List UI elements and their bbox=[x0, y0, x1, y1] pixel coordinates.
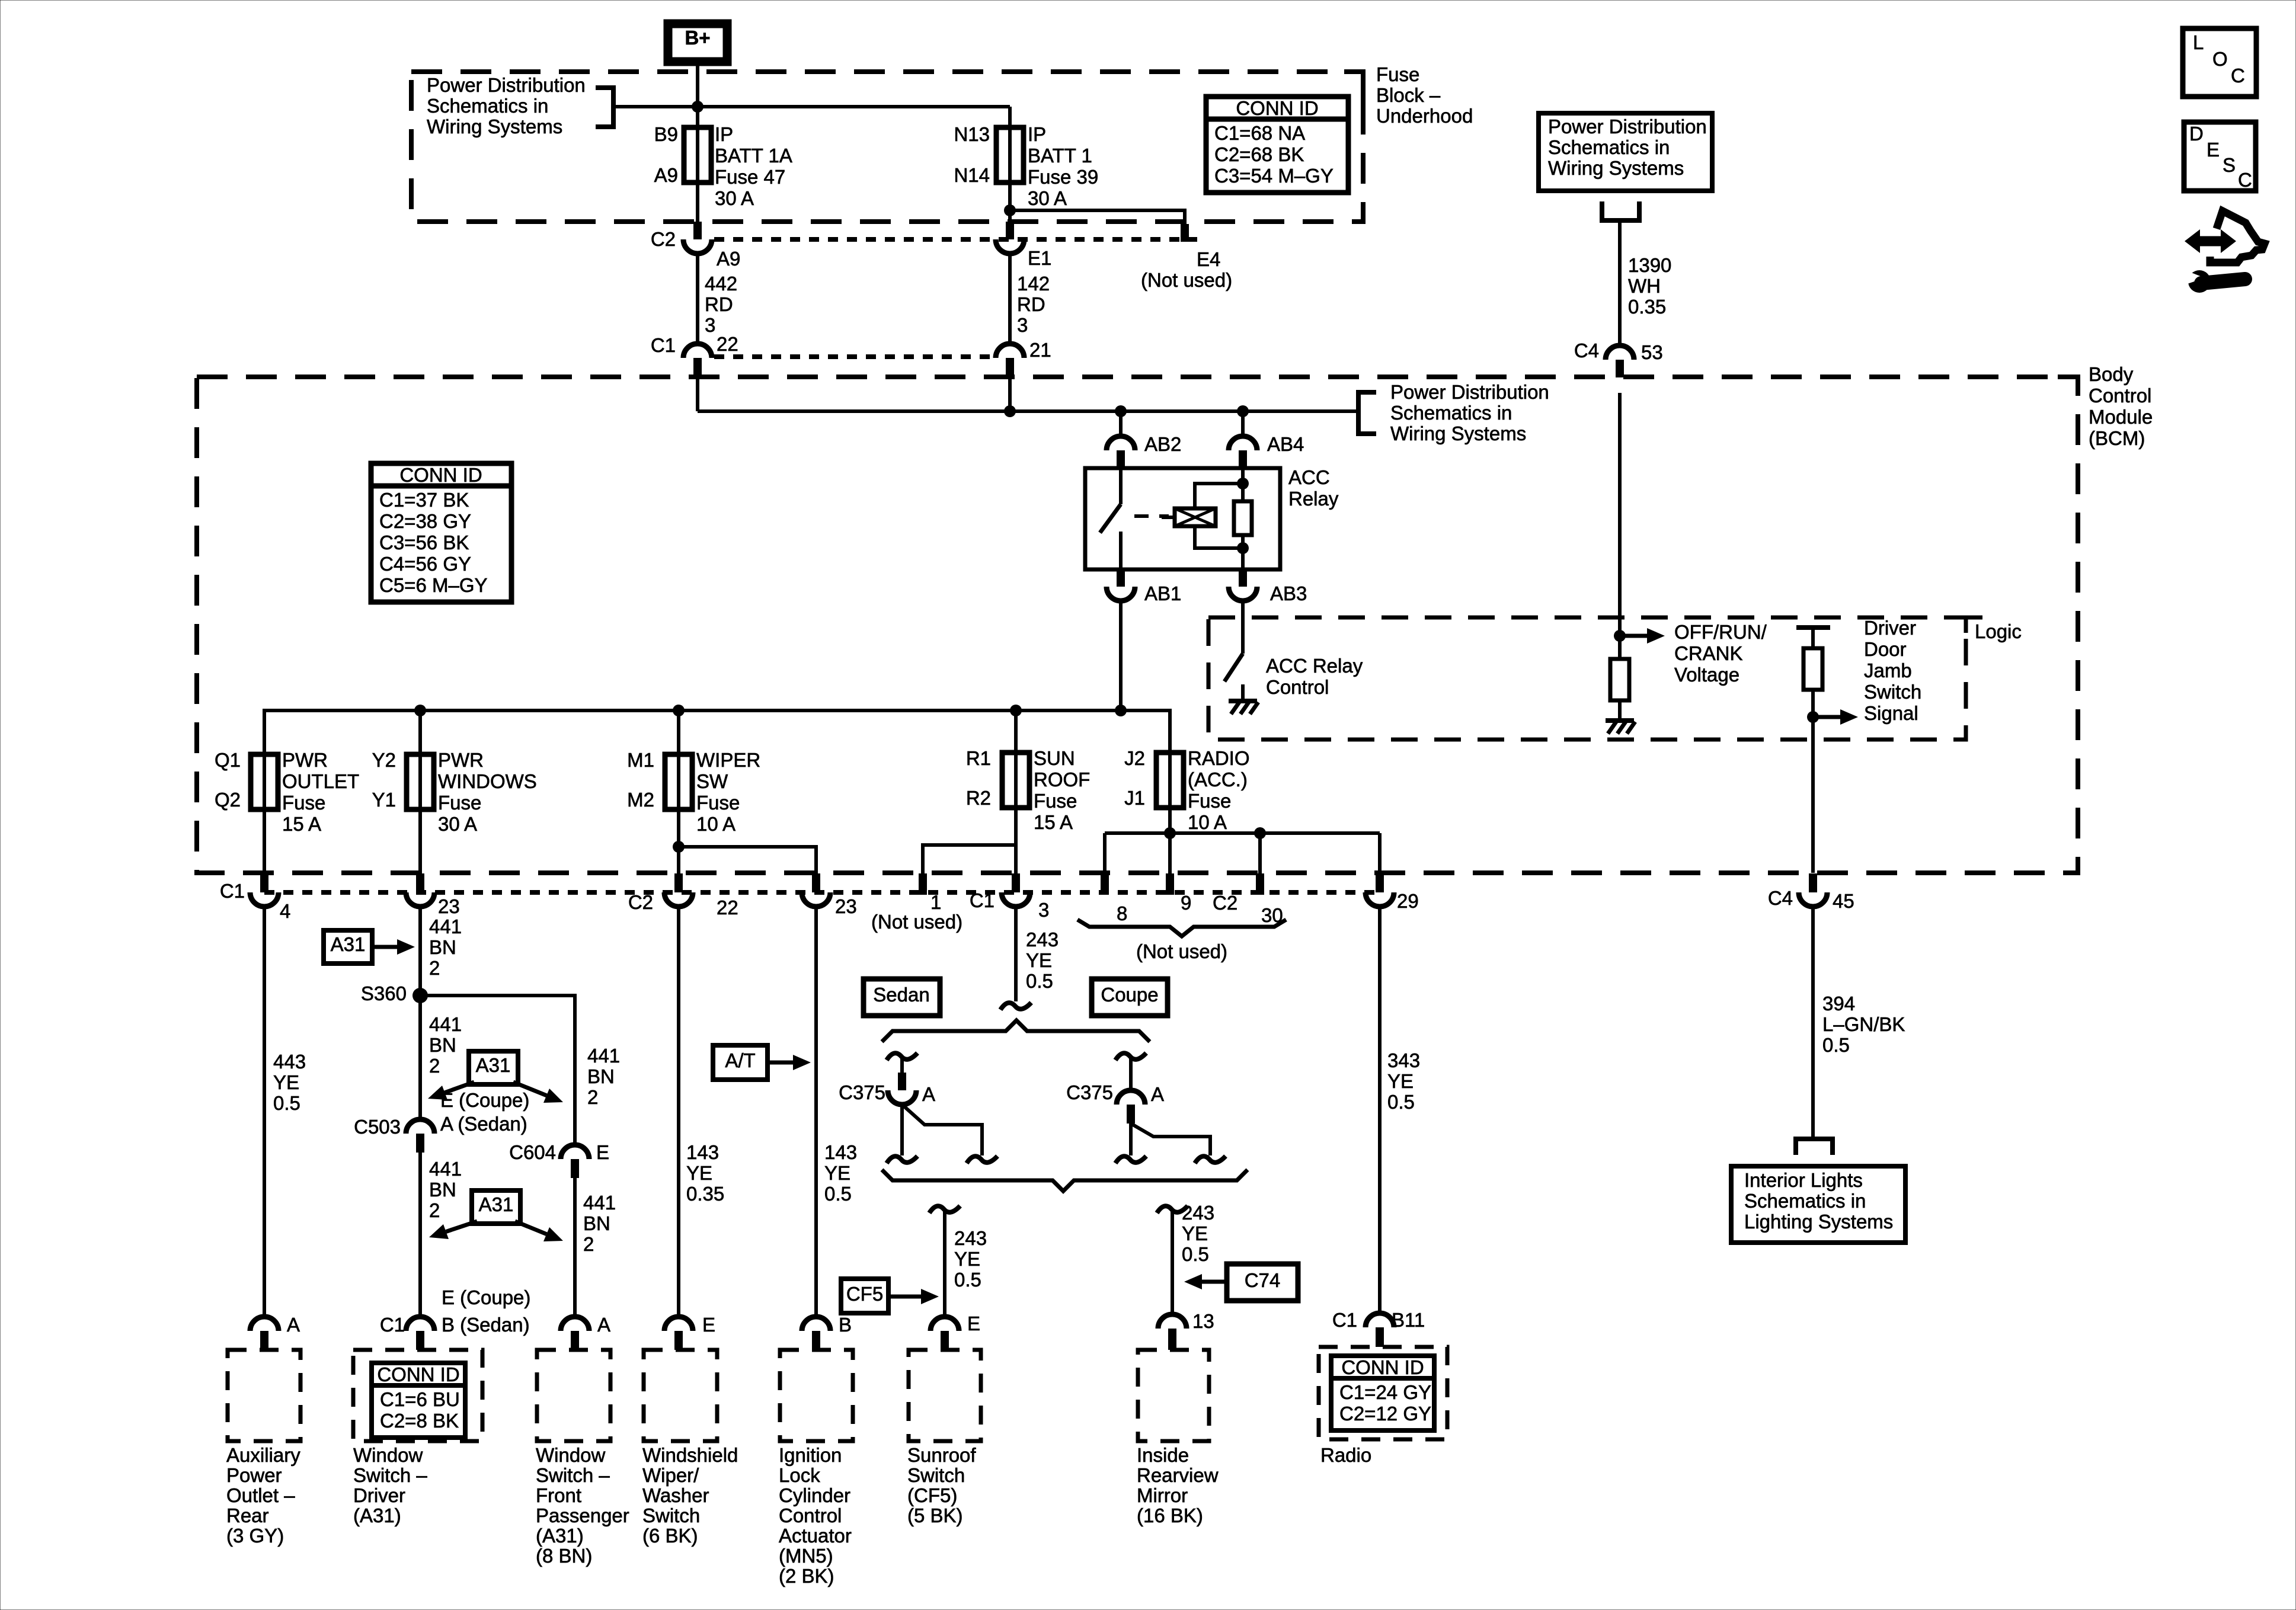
svg-text:C1: C1 bbox=[651, 334, 676, 356]
relay switch blade bbox=[1100, 504, 1121, 533]
wire 243 YE 0.5: pin 3 down bbox=[1014, 907, 1018, 1001]
icon: door with double arrow bbox=[2194, 236, 2227, 247]
connector AB3 bbox=[1239, 569, 1247, 587]
connector E1 bbox=[1006, 222, 1014, 239]
arrow: A31 to passenger wire bbox=[513, 1082, 546, 1096]
wire: bracket to B+ feed bbox=[613, 105, 698, 108]
svg-text:C375: C375 bbox=[839, 1081, 885, 1103]
svg-text:C2: C2 bbox=[628, 891, 653, 913]
wire: drop to pin 29 bbox=[1378, 833, 1382, 877]
wire: bus drop to R fuse bbox=[1014, 710, 1018, 753]
wire: S360 down to C503 bbox=[418, 996, 422, 1119]
relay coil (box with X) bbox=[1175, 508, 1216, 526]
option box: Coupe bbox=[1092, 979, 1168, 1016]
conn id table window switch driver bbox=[372, 1363, 465, 1438]
wire: C604 to window switch front passenger bbox=[573, 1178, 577, 1317]
node: off run crank tap bbox=[1614, 630, 1626, 642]
reference box A31 (middle) bbox=[469, 1051, 518, 1084]
wire: feed across to fuse 39 bbox=[698, 105, 1010, 108]
connector AB4 bbox=[1229, 436, 1257, 450]
conn id table radio bbox=[1331, 1356, 1434, 1430]
brace: split to sedan and coupe bbox=[882, 1020, 1150, 1042]
arrow: A31 to passenger wire (lower) bbox=[515, 1221, 546, 1234]
sedan switch: angled leg bbox=[902, 1105, 982, 1156]
wire 143 YE 0.5: ignition lock bbox=[814, 907, 818, 1317]
wire: BCM top bus to off-page bracket bbox=[698, 409, 1357, 413]
logic dashed box bbox=[1208, 617, 1966, 740]
svg-text:C2=8 BK: C2=8 BK bbox=[380, 1410, 459, 1432]
component box: ignition lock cylinder control actuator bbox=[780, 1350, 853, 1441]
svg-text:C1=68 NA: C1=68 NA bbox=[1214, 122, 1305, 144]
arrow: A31 to wire bbox=[372, 945, 399, 949]
connector pin 1 (not used) stub bbox=[919, 873, 927, 895]
svg-text:D: D bbox=[2189, 123, 2204, 145]
svg-text:(Not used): (Not used) bbox=[1141, 269, 1232, 291]
component box: inside rearview mirror bbox=[1138, 1350, 1209, 1441]
svg-text:Sedan: Sedan bbox=[873, 984, 929, 1006]
svg-text:C2=12 GY: C2=12 GY bbox=[1339, 1403, 1431, 1425]
icon: wrench bbox=[2188, 270, 2211, 293]
svg-text:B11: B11 bbox=[1392, 1309, 1425, 1331]
connector pin 23 (window) bbox=[416, 873, 424, 892]
svg-text:E: E bbox=[967, 1313, 980, 1334]
connector pin 21 bbox=[996, 344, 1024, 358]
fuse block - underhood dashed boundary bbox=[411, 72, 1363, 222]
svg-text:E: E bbox=[2207, 139, 2220, 161]
svg-text:A: A bbox=[1151, 1083, 1164, 1105]
wire: bus drop to Y fuse bbox=[418, 710, 422, 754]
B+ battery feed box bbox=[668, 24, 727, 62]
connector line (dotted) fuse block outputs bbox=[714, 237, 1197, 242]
ground: ACC relay control bbox=[1229, 699, 1257, 703]
svg-text:4: 4 bbox=[280, 900, 290, 922]
svg-text:J1: J1 bbox=[1124, 787, 1145, 809]
ACC relay control switch blade bbox=[1224, 654, 1243, 681]
LOC reference box bbox=[2183, 28, 2256, 97]
connector C1 (window switch driver) bbox=[406, 1317, 434, 1331]
svg-text:R2: R2 bbox=[966, 787, 991, 809]
brace: merge sedan/coupe outputs bbox=[882, 1170, 1248, 1191]
wire 143 YE 0.35: wiper switch bbox=[677, 907, 680, 1317]
arrow: A31 to driver wire bbox=[445, 1082, 474, 1093]
connector AB1 bbox=[1117, 569, 1125, 587]
svg-text:3: 3 bbox=[1038, 899, 1049, 921]
bracket for power distribution note bbox=[596, 88, 613, 127]
svg-text:B: B bbox=[839, 1314, 852, 1336]
wire: C4-53 OFF/RUN/CRANK voltage into logic bbox=[1618, 393, 1622, 659]
curl: coupe leg 2 end bbox=[1195, 1156, 1226, 1163]
svg-text:CONN ID: CONN ID bbox=[1236, 97, 1318, 119]
curl: coupe leg 1 end bbox=[1115, 1156, 1146, 1163]
connector C2 pin A9 bbox=[693, 222, 702, 239]
wire: bus drop to M fuse bbox=[677, 710, 680, 754]
connector C375 A (sedan) bbox=[898, 1073, 906, 1090]
svg-text:E (Coupe): E (Coupe) bbox=[440, 1089, 529, 1111]
fuse: SUN ROOF 15 A bbox=[1014, 753, 1018, 808]
svg-text:Q2: Q2 bbox=[215, 789, 241, 811]
svg-text:C: C bbox=[2231, 65, 2245, 87]
svg-text:E (Coupe): E (Coupe) bbox=[442, 1286, 530, 1308]
bracket for logic label bbox=[1966, 617, 1982, 633]
wire: resistor down through logic box bbox=[1811, 690, 1815, 873]
wire: drop to pin 8 bbox=[1103, 833, 1107, 877]
wire 142 RD 3: E1 to BCM bbox=[1008, 254, 1012, 344]
svg-text:A (Sedan): A (Sedan) bbox=[440, 1113, 527, 1135]
wire: AB3 down to ACC relay control switch bbox=[1241, 601, 1245, 654]
body control module dashed boundary bbox=[197, 377, 2078, 873]
curl: sedan branch start bbox=[887, 1053, 917, 1060]
node: wiper branch junction bbox=[673, 841, 685, 853]
wire: drop to pin 9 bbox=[1168, 833, 1172, 877]
wire: fuse 47 to connector C2 bbox=[696, 183, 699, 223]
curl: sunroof wire start bbox=[929, 1206, 960, 1213]
svg-text:L: L bbox=[2193, 31, 2204, 53]
option box: Sedan bbox=[864, 979, 940, 1016]
node: coil bottom junction bbox=[1237, 542, 1249, 554]
wire: AB1 down to internal bus bbox=[1119, 601, 1123, 710]
svg-text:C503: C503 bbox=[354, 1116, 401, 1138]
wire 441 BN 2: pin 23 to S360 bbox=[418, 907, 422, 996]
svg-text:C5=6 M–GY: C5=6 M–GY bbox=[379, 574, 488, 596]
svg-text:C1=37 BK: C1=37 BK bbox=[379, 489, 469, 511]
node: E4 branch junction bbox=[1004, 204, 1016, 216]
fuse: WIPER SW 10 A bbox=[677, 754, 680, 809]
coupe switch: straight leg bbox=[1129, 1124, 1133, 1156]
connector C2 pin 22 (wiper) bbox=[674, 873, 683, 892]
wire: BCM internal fuse bus bbox=[264, 710, 1170, 754]
brace: pins 8-30 not used bbox=[1077, 920, 1286, 936]
wire: coupe branch to C375 bbox=[1129, 1056, 1133, 1090]
svg-text:C375: C375 bbox=[1066, 1081, 1113, 1103]
wire: AB4 into relay bbox=[1241, 468, 1245, 501]
svg-text:J2: J2 bbox=[1124, 747, 1145, 769]
curl: sedan leg 2 end bbox=[967, 1156, 997, 1163]
svg-text:CONN ID: CONN ID bbox=[377, 1363, 459, 1385]
arrow: OFF/RUN/CRANK voltage bbox=[1620, 634, 1649, 638]
wire: pin 22 into BCM bus bbox=[696, 376, 699, 411]
svg-text:S360: S360 bbox=[361, 982, 407, 1004]
svg-text:1: 1 bbox=[930, 891, 941, 913]
wire: R fuse to connector C1-3 bbox=[1014, 809, 1018, 877]
svg-text:C1=24 GY: C1=24 GY bbox=[1339, 1381, 1431, 1403]
svg-text:R1: R1 bbox=[966, 747, 991, 769]
fuse: PWR OUTLET 15 A bbox=[263, 754, 266, 809]
wire 1390 WH 0.35 bbox=[1618, 220, 1622, 345]
corner mark at BCM top right bbox=[2058, 375, 2078, 379]
arrow: A/T to ignition wire bbox=[768, 1061, 795, 1065]
node: junction pin 30 bbox=[1254, 827, 1266, 839]
bracket above interior lights box bbox=[1796, 1139, 1833, 1155]
svg-text:A: A bbox=[287, 1314, 300, 1336]
curl: coupe branch start bbox=[1115, 1053, 1146, 1060]
fuse 39: IP BATT 1 30 A bbox=[1008, 127, 1012, 183]
svg-text:E: E bbox=[596, 1141, 609, 1163]
svg-text:Q1: Q1 bbox=[215, 749, 241, 771]
arrow: CF5 to sunroof wire bbox=[888, 1295, 923, 1299]
svg-text:C2: C2 bbox=[651, 228, 676, 250]
coupe switch: angled leg bbox=[1131, 1124, 1210, 1156]
wire: branch to pin 1 (not used) bbox=[923, 845, 1016, 877]
box: power distribution schematics in wiring systems bbox=[1539, 113, 1712, 191]
svg-text:45: 45 bbox=[1833, 890, 1854, 912]
connector C604 bbox=[561, 1145, 589, 1159]
connector C1 pin B11 (radio) bbox=[1366, 1313, 1394, 1327]
connector C1 pin 4 bbox=[260, 873, 268, 892]
connector C503 bbox=[406, 1119, 434, 1134]
wire: Y fuse to connector 23 bbox=[418, 809, 422, 877]
svg-text:N14: N14 bbox=[954, 164, 990, 186]
arrow: C74 to mirror wire bbox=[1200, 1280, 1227, 1284]
curl: rearview mirror wire start bbox=[1157, 1206, 1188, 1213]
svg-text:Y1: Y1 bbox=[372, 789, 396, 811]
svg-text:CF5: CF5 bbox=[846, 1283, 883, 1305]
svg-text:S: S bbox=[2223, 154, 2236, 176]
wire: fuse 39 to E1 and E4 branch bbox=[1008, 183, 1012, 223]
svg-text:A31: A31 bbox=[476, 1054, 511, 1076]
corner mark at fuse block top right bbox=[1344, 69, 1363, 74]
svg-text:M1: M1 bbox=[627, 749, 654, 771]
wire: drop to pin 30 bbox=[1258, 833, 1262, 877]
wire: M fuse to connector C2-22 bbox=[677, 809, 680, 877]
resistor: off run crank pull-up bbox=[1610, 659, 1629, 700]
fuse: RADIO ACC 10 A bbox=[1168, 753, 1172, 808]
wire: J fuse to pin row bbox=[1168, 809, 1172, 833]
box: interior lights schematics in lighting systems bbox=[1731, 1166, 1905, 1243]
connector pin 9 stub (not used) bbox=[1166, 873, 1174, 895]
component box: window switch front passenger bbox=[537, 1350, 610, 1441]
wire: sedan branch to C375 bbox=[900, 1056, 904, 1076]
node: coil top junction bbox=[1237, 478, 1249, 489]
fuse 47: IP BATT 1A 30 A bbox=[696, 127, 699, 183]
svg-text:CONN ID: CONN ID bbox=[399, 464, 482, 486]
svg-text:C: C bbox=[2238, 169, 2252, 191]
reference box A31 (top) bbox=[324, 930, 372, 964]
wire 243 YE 0.5 to sunroof switch bbox=[943, 1209, 946, 1317]
relay coil suppression resistor bbox=[1234, 501, 1252, 535]
wire 394 L-GN/BK 0.5: to interior lights bbox=[1811, 907, 1815, 1138]
svg-text:A9: A9 bbox=[717, 248, 740, 270]
svg-text:B (Sedan): B (Sedan) bbox=[442, 1314, 530, 1336]
connector C1 pin 22 bbox=[683, 344, 712, 358]
wire: bus down to AB4 bbox=[1241, 411, 1245, 438]
svg-text:13: 13 bbox=[1192, 1310, 1214, 1332]
wire: resistor bottom to box bottom bbox=[1241, 535, 1245, 569]
svg-text:C3=56 BK: C3=56 BK bbox=[379, 532, 469, 553]
connector pin 23 (ignition) bbox=[812, 873, 820, 892]
svg-text:B9: B9 bbox=[654, 123, 678, 145]
svg-text:A: A bbox=[597, 1314, 610, 1336]
svg-text:E1: E1 bbox=[1028, 247, 1051, 269]
svg-text:(Not used): (Not used) bbox=[871, 911, 962, 933]
relay actuation dashed link bbox=[1134, 514, 1169, 518]
wire: coil top to AB4 branch bbox=[1195, 484, 1243, 508]
svg-text:22: 22 bbox=[717, 897, 738, 918]
connector E (wiper) bbox=[664, 1317, 693, 1331]
svg-text:A9: A9 bbox=[654, 164, 678, 186]
svg-text:9: 9 bbox=[1181, 892, 1191, 914]
connector A (front passenger) bbox=[561, 1317, 589, 1331]
svg-text:C1: C1 bbox=[380, 1314, 405, 1336]
svg-text:E: E bbox=[702, 1314, 715, 1336]
connector C4 pin 45 bbox=[1809, 873, 1817, 892]
reference box C74 bbox=[1227, 1264, 1298, 1301]
svg-text:C74: C74 bbox=[1245, 1269, 1281, 1291]
connector line (dotted) BCM top bbox=[714, 354, 996, 359]
conn id table for BCM bbox=[371, 463, 511, 602]
svg-text:C604: C604 bbox=[509, 1141, 556, 1163]
relay switch fixed contact from AB2 bbox=[1119, 468, 1123, 504]
svg-text:AB3: AB3 bbox=[1270, 582, 1307, 604]
connector pin 30 stub (not used) bbox=[1256, 873, 1264, 895]
node: B+ feed junction bbox=[692, 101, 703, 113]
node: bus junction at pin 21 bbox=[1004, 405, 1016, 417]
wire: resistor to ground bbox=[1618, 700, 1622, 719]
svg-text:B+: B+ bbox=[685, 27, 710, 49]
wire: C503 to window switch driver bbox=[418, 1153, 422, 1317]
wire: bus down to AB2 bbox=[1119, 411, 1123, 438]
curl: sedan leg 1 end bbox=[887, 1156, 917, 1163]
svg-text:29: 29 bbox=[1397, 890, 1419, 912]
wire 243 YE 0.5 to inside rearview mirror bbox=[1171, 1209, 1174, 1314]
ACC relay control lower contact bbox=[1241, 684, 1245, 700]
wire: T bar to resistor bbox=[1811, 628, 1815, 648]
node: junction pin 9 bbox=[1164, 827, 1176, 839]
node: jamb switch signal tap bbox=[1807, 711, 1819, 723]
connector line (dotted) BCM bottom bbox=[264, 890, 1382, 895]
wire: radio fuse distribution bar bbox=[1105, 831, 1380, 835]
connector C1 pin 3 (sunroof) bbox=[1012, 873, 1020, 892]
connector B (ignition) bbox=[802, 1317, 830, 1331]
connector pin 8 stub (not used) bbox=[1101, 873, 1109, 895]
connector pin 29 (radio) bbox=[1376, 873, 1384, 892]
svg-text:N13: N13 bbox=[954, 123, 990, 145]
node: bus junction AB2 bbox=[1115, 405, 1127, 417]
component box: auxiliary power outlet rear bbox=[228, 1350, 300, 1441]
ACC relay box bbox=[1085, 468, 1280, 569]
svg-text:AB4: AB4 bbox=[1267, 433, 1304, 455]
svg-text:23: 23 bbox=[438, 895, 460, 917]
resistor: driver door jamb bbox=[1803, 648, 1822, 690]
arrow: driver door jamb switch signal bbox=[1813, 715, 1843, 719]
wire: coil bottom to AB3 branch bbox=[1195, 526, 1243, 548]
svg-text:C4: C4 bbox=[1768, 887, 1793, 909]
connector AB2 bbox=[1107, 436, 1135, 450]
svg-text:C1=6 BU: C1=6 BU bbox=[380, 1388, 460, 1410]
wire: pin 21 into bus bbox=[1008, 376, 1012, 411]
connector A (aux outlet) bbox=[250, 1317, 279, 1331]
wire 343 YE 0.5: pin 29 to radio bbox=[1378, 907, 1382, 1313]
wire: S360 branch to front passenger bbox=[420, 996, 575, 1145]
svg-text:C3=54 M–GY: C3=54 M–GY bbox=[1214, 165, 1334, 187]
wire: Q fuse to connector C1-4 bbox=[263, 809, 266, 877]
svg-text:C1: C1 bbox=[1332, 1309, 1357, 1331]
wire: B+ down to fuse 47 bbox=[696, 62, 699, 127]
node: bus junction M fuse bbox=[673, 705, 685, 716]
svg-text:E4: E4 bbox=[1197, 248, 1220, 270]
component box: sunroof switch bbox=[909, 1350, 981, 1441]
node: bus junction Y fuse bbox=[414, 705, 426, 716]
node: bus junction AB4 bbox=[1237, 405, 1249, 417]
svg-text:C2: C2 bbox=[1213, 892, 1237, 914]
svg-text:C4: C4 bbox=[1574, 340, 1599, 361]
node: bus junction R fuse bbox=[1010, 705, 1022, 716]
svg-text:A31: A31 bbox=[479, 1193, 514, 1215]
curl: wire 243 end bbox=[1000, 1003, 1031, 1010]
splice S360 bbox=[412, 988, 428, 1003]
node: bus junction AB1 feed bbox=[1115, 705, 1127, 716]
svg-text:AB2: AB2 bbox=[1144, 433, 1181, 455]
svg-text:M2: M2 bbox=[627, 789, 654, 811]
DESC reference box bbox=[2184, 122, 2256, 191]
wire 443 YE 0.5: to aux power outlet bbox=[263, 907, 266, 1317]
svg-text:A/T: A/T bbox=[725, 1049, 755, 1071]
svg-text:Coupe: Coupe bbox=[1101, 984, 1158, 1006]
connector E (sunroof) bbox=[930, 1317, 959, 1331]
reference box A31 (bottom) bbox=[472, 1190, 520, 1224]
svg-text:C1: C1 bbox=[220, 880, 245, 902]
svg-text:Logic: Logic bbox=[1975, 620, 2022, 642]
svg-text:C2=38 GY: C2=38 GY bbox=[379, 510, 471, 532]
wire 442 RD 3: C2 to BCM bbox=[696, 254, 699, 344]
connector E4 (not used) stub bbox=[1181, 224, 1189, 242]
svg-text:CONN ID: CONN ID bbox=[1341, 1356, 1424, 1378]
arrow: A31 to driver wire (lower) bbox=[446, 1221, 477, 1232]
svg-text:C1: C1 bbox=[970, 889, 994, 911]
bracket: power distribution schematics (BCM) bbox=[1358, 392, 1376, 434]
ground: off run crank bbox=[1606, 718, 1634, 723]
sedan switch: straight leg bbox=[900, 1105, 904, 1156]
connector pin 13 (mirror) bbox=[1158, 1314, 1187, 1329]
svg-text:Radio: Radio bbox=[1320, 1444, 1371, 1466]
svg-text:53: 53 bbox=[1641, 341, 1663, 363]
component box: radio bbox=[1319, 1347, 1447, 1439]
bracket below power distribution box bbox=[1602, 201, 1639, 220]
svg-text:Y2: Y2 bbox=[372, 749, 396, 771]
wire: branch to connector 23 (ignition) bbox=[679, 847, 816, 877]
svg-text:C2=68 BK: C2=68 BK bbox=[1214, 143, 1304, 165]
connector C4 pin 53 bbox=[1606, 345, 1634, 360]
conn id table for fuse block bbox=[1206, 97, 1348, 193]
svg-text:23: 23 bbox=[835, 895, 857, 917]
svg-text:A: A bbox=[922, 1083, 935, 1105]
driver door jamb internal T bar bbox=[1796, 625, 1830, 630]
svg-text:8: 8 bbox=[1117, 902, 1127, 924]
svg-text:A31: A31 bbox=[331, 933, 366, 955]
svg-text:22: 22 bbox=[717, 333, 738, 355]
component box: windshield wiper washer switch bbox=[644, 1350, 717, 1441]
svg-text:21: 21 bbox=[1029, 339, 1051, 361]
relay switch lower contact bbox=[1119, 532, 1123, 569]
svg-text:C4=56 GY: C4=56 GY bbox=[379, 553, 471, 575]
wire: branch to E4 (not used) bbox=[1010, 210, 1185, 224]
svg-text:(Not used): (Not used) bbox=[1136, 940, 1227, 962]
svg-text:O: O bbox=[2212, 48, 2228, 70]
fuse: PWR WINDOWS 30 A bbox=[418, 754, 422, 809]
component box: window switch driver bbox=[353, 1350, 482, 1441]
svg-text:AB1: AB1 bbox=[1144, 582, 1181, 604]
reference box CF5 bbox=[841, 1279, 888, 1313]
reference box A/T bbox=[713, 1045, 768, 1080]
connector C375 A (coupe) bbox=[1117, 1090, 1145, 1105]
